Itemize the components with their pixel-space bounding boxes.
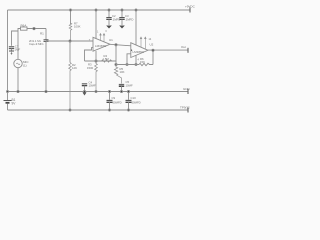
resistor R3 <box>95 61 98 92</box>
node R2/bottom rail <box>69 109 71 111</box>
svg-text:LM386N: LM386N <box>133 50 144 54</box>
resistor R6 <box>139 63 153 65</box>
wire bottom rail <box>8 109 189 111</box>
node C9/bottom rail <box>109 109 111 111</box>
C1 label <box>29 39 44 46</box>
svg-text:50MFD: 50MFD <box>113 100 122 104</box>
resistor R7 <box>69 23 72 41</box>
C2 label <box>112 14 120 21</box>
svg-text:U2: U2 <box>150 43 154 47</box>
node C9/ground rail <box>108 90 110 92</box>
C9 label <box>112 96 122 104</box>
wire C7 branch <box>12 31 19 46</box>
U1 internal label <box>95 44 106 48</box>
ground arrow below rail <box>83 92 87 96</box>
wire U2 loop <box>116 64 139 66</box>
terminal bottom rail <box>187 108 189 113</box>
wire U1 output <box>110 44 131 46</box>
R5 label <box>120 67 125 74</box>
capacitor C5 <box>119 84 124 91</box>
capacitor C2 branch <box>108 10 110 17</box>
svg-text:.1MF: .1MF <box>14 48 21 52</box>
svg-text:.1MFD: .1MFD <box>112 17 120 21</box>
R3 label <box>87 63 94 70</box>
wire +V top rail <box>8 9 191 11</box>
R6A label <box>21 24 27 28</box>
wire out to loop <box>115 45 117 65</box>
capacitor C10 <box>126 100 132 110</box>
terminal ground rail <box>187 89 189 94</box>
capacitor C2 <box>106 18 111 25</box>
svg-text:U1: U1 <box>109 38 113 42</box>
C7 label <box>14 44 21 51</box>
wire U1 V+ pin <box>95 10 97 39</box>
pin U2 arrows <box>140 37 146 49</box>
capacitor C1 <box>44 40 49 92</box>
svg-text:10K: 10K <box>120 70 125 74</box>
battery B1 <box>4 101 12 111</box>
ground under C3 <box>119 26 125 29</box>
wire U2 gnd pin <box>135 55 137 64</box>
bottom terminal label <box>180 105 190 109</box>
wire input drop <box>45 29 47 40</box>
svg-text:100K: 100K <box>74 25 81 29</box>
node mic/ground rail <box>17 90 19 92</box>
op-amp U2 <box>131 43 148 58</box>
resistor R4 <box>102 60 117 62</box>
terminal Out <box>187 48 189 53</box>
op-amp U1 <box>93 37 110 51</box>
node R2 tap <box>69 40 71 42</box>
node C1/ground rail <box>45 90 47 92</box>
svg-text:50MFD: 50MFD <box>132 100 141 104</box>
node loop left <box>115 63 117 65</box>
U2 designator <box>150 43 154 47</box>
svg-text:1500: 1500 <box>87 66 94 70</box>
svg-text:R6A: R6A <box>21 24 27 28</box>
node C4/ground rail <box>83 90 85 92</box>
node U2 minus loop <box>126 64 128 66</box>
svg-text:.1MFD: .1MFD <box>125 17 133 21</box>
battery label 9V <box>12 98 17 106</box>
svg-text:+9VDC: +9VDC <box>185 5 196 9</box>
svg-text:15K: 15K <box>140 60 145 64</box>
svg-text:10MF: 10MF <box>89 84 96 88</box>
node battery/ground rail <box>7 91 9 93</box>
capacitor C9 <box>107 100 113 110</box>
wire U1 minus input step <box>85 48 94 61</box>
pin number U2 gnd <box>138 59 140 62</box>
MIC1 label <box>23 60 29 68</box>
pin U1 arrows <box>100 34 105 42</box>
node U2 input mark <box>131 49 133 51</box>
plus mark U1 input <box>89 39 91 42</box>
wire R7 branch from top rail <box>70 10 72 24</box>
node U2 gnd loop <box>135 64 137 66</box>
node C10/ground rail <box>127 90 129 92</box>
wire U1 gnd pin <box>95 51 97 61</box>
node R3/ground rail <box>95 91 97 93</box>
ground terminal label <box>183 87 191 91</box>
svg-text:(1): (1) <box>23 64 27 68</box>
wire U2 output <box>148 49 188 51</box>
node output junction <box>152 49 154 51</box>
+9VDC label <box>185 5 196 9</box>
node input junction <box>33 28 35 30</box>
svg-text:Cap+9 MF1: Cap+9 MF1 <box>29 42 44 46</box>
svg-text:12K: 12K <box>72 66 77 70</box>
R4 label <box>103 54 110 61</box>
wire ground rail <box>8 91 189 93</box>
node U1 pin/top rail <box>95 9 97 11</box>
svg-text:LM387N: LM387N <box>95 44 106 48</box>
svg-text:C10: C10 <box>131 96 137 100</box>
svg-text:R1: R1 <box>40 31 44 35</box>
R6 label <box>140 57 145 64</box>
C4 label <box>89 80 96 87</box>
wire left battery branch <box>7 10 9 100</box>
C3 label <box>125 14 133 21</box>
node U2 pin/top rail <box>135 9 137 11</box>
resistor R6A (input series box) <box>18 27 46 59</box>
wire R2 branch <box>69 41 71 63</box>
R2 label <box>72 63 77 70</box>
capacitor C3 <box>119 18 124 25</box>
svg-text:TP9/12: TP9/12 <box>180 105 190 109</box>
svg-text:Out: Out <box>181 45 186 49</box>
node R7/top rail <box>70 9 72 11</box>
C10 label <box>131 96 141 104</box>
wire signal to op-amp <box>46 40 93 42</box>
node C3/top rail <box>121 9 123 11</box>
svg-text:1.5M: 1.5M <box>103 57 110 61</box>
svg-text:C9: C9 <box>112 96 116 100</box>
wire U2 V+ pin <box>135 10 137 45</box>
capacitor C10 branch <box>128 92 130 100</box>
node feedback/R3 <box>95 60 97 62</box>
wire U1 feedback line <box>85 60 117 62</box>
node U1 out junction <box>115 44 117 46</box>
capacitor C7 <box>9 47 14 51</box>
pin numbers U1 <box>97 30 107 33</box>
wire loop up to output <box>152 50 154 64</box>
resistor R2 <box>69 63 72 111</box>
node C10/bottom rail <box>128 109 130 111</box>
microphone MIC1 <box>14 59 22 67</box>
node C2/top rail <box>108 9 110 11</box>
svg-text:10MF: 10MF <box>126 83 133 87</box>
U2 internal label <box>133 50 144 54</box>
capacitor C9 branch <box>109 92 111 100</box>
resistor R5 <box>114 65 121 84</box>
pin numbers U2 <box>149 38 152 41</box>
capacitor C4 <box>82 84 87 92</box>
Out label <box>181 45 186 49</box>
ground under C2 <box>106 26 112 29</box>
node C5/ground rail <box>120 90 122 92</box>
U1 designator <box>109 38 113 42</box>
R1 label <box>40 31 44 35</box>
wire mic to ground rail <box>17 68 19 92</box>
svg-text:GND: GND <box>183 87 191 91</box>
R7 label <box>74 21 81 28</box>
ground under C7 <box>9 51 14 55</box>
C5 label <box>126 80 133 87</box>
wire U2 minus input <box>127 54 131 65</box>
capacitor C3 branch <box>121 10 123 17</box>
terminal +9VDC <box>189 8 191 13</box>
